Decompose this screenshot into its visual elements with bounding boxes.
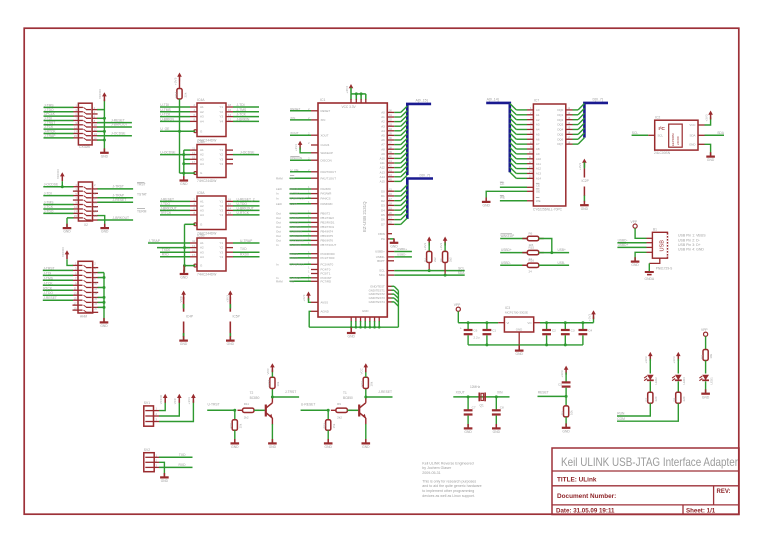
svg-text:GND: GND <box>483 204 491 208</box>
connector SV2 pin 1 <box>145 456 159 458</box>
svg-text:1: 1 <box>308 267 310 270</box>
wire LED1 to ground <box>705 381 707 393</box>
wire GND/TEST2 diagonal <box>394 294 398 298</box>
svg-text:to implement other programming: to implement other programming <box>422 489 474 493</box>
wire VPP to R1 <box>705 336 707 349</box>
wire regulator ground rail <box>468 344 583 346</box>
wire IC5A/IC5B GND vertical <box>184 224 186 271</box>
svg-text:R1: R1 <box>700 355 704 359</box>
svg-text:J-RESET: J-RESET <box>43 296 57 300</box>
IC1 VCC pin <box>355 99 357 103</box>
svg-text:D1: D1 <box>381 194 385 198</box>
supply VCC arrow R12 <box>364 363 369 367</box>
ground below IC4B <box>183 176 185 180</box>
wire RUDY to IC1 <box>290 188 312 190</box>
ground GNDA <box>645 271 654 273</box>
connector SV1 pin 3 <box>145 421 159 423</box>
svg-text:AHM: AHM <box>80 315 87 319</box>
IC2 pin SCL <box>648 134 655 136</box>
wire reset cap top <box>565 373 567 382</box>
svg-text:A3: A3 <box>200 250 204 254</box>
ground at IC1 PA pin <box>393 238 395 242</box>
svg-text:RESET: RESET <box>538 391 549 395</box>
svg-text:GND: GND <box>325 445 333 449</box>
svg-text:10k: 10k <box>709 353 713 358</box>
IC5A pin G bubble <box>194 223 197 226</box>
svg-text:PN61729-S: PN61729-S <box>656 266 672 270</box>
wire node to R3 <box>565 396 567 406</box>
wire D3 bus entry <box>394 204 401 206</box>
connector X1 pin contacts row 8 <box>73 137 83 139</box>
svg-text:PB6/INT6: PB6/INT6 <box>321 239 334 243</box>
wire +3V3 riser <box>593 317 595 323</box>
svg-text:A6: A6 <box>381 138 385 142</box>
svg-text:USB Pin 1: VBUS: USB Pin 1: VBUS <box>678 234 706 238</box>
junction IC4B A4 <box>182 162 185 165</box>
svg-text:Y4: Y4 <box>219 213 223 217</box>
svg-text:In: In <box>276 262 279 266</box>
svg-text:USBD-: USBD- <box>501 261 511 265</box>
svg-text:+3V3: +3V3 <box>560 370 564 377</box>
IC1 left pin PC5/T1 <box>311 273 318 275</box>
svg-text:U-RESET: U-RESET <box>290 234 303 238</box>
wire WAKEUP to R6 <box>500 238 527 240</box>
svg-text:SDA: SDA <box>717 131 725 135</box>
wire C7 stub <box>467 397 469 410</box>
IC1 right pin PA to small ground <box>387 238 390 240</box>
IC7 pin A11 <box>527 163 533 165</box>
bus A[0..14] <box>486 103 510 172</box>
IC2P GND pin <box>583 187 585 197</box>
wire C8 stub <box>495 397 497 410</box>
IC1 right pin FBIN <box>387 233 392 235</box>
svg-text:15: 15 <box>74 214 77 218</box>
connector X3 pin contacts row 1 <box>73 264 83 266</box>
wire A13 bus entry <box>394 171 401 173</box>
svg-text:A1: A1 <box>536 113 540 117</box>
IC5A pin A3 <box>190 209 197 211</box>
svg-text:A7: A7 <box>381 143 385 147</box>
svg-text:14: 14 <box>94 132 97 136</box>
svg-text:14: 14 <box>94 291 97 295</box>
junction RESET <box>565 395 568 398</box>
IC5B pin A2 <box>190 247 197 249</box>
svg-text:24LC00SN: 24LC00SN <box>654 151 671 155</box>
svg-text:USBD-: USBD- <box>618 238 628 242</box>
svg-text:WR: WR <box>290 176 296 180</box>
transistor TRESET body <box>358 405 360 417</box>
svg-text:GND: GND <box>161 479 169 483</box>
IC1 pin A2 <box>387 121 394 123</box>
svg-text:X2: X2 <box>84 223 88 227</box>
wire USBD- at IC1 <box>394 256 412 258</box>
IC5P GND pin <box>229 322 231 338</box>
IC1 left pin PB3/TXD1 <box>311 226 318 228</box>
svg-text:2k2: 2k2 <box>337 416 342 420</box>
wire A12 to IC7 <box>516 168 527 170</box>
IC1 pin D4 <box>387 209 394 211</box>
svg-text:12MHz: 12MHz <box>470 385 481 389</box>
connector X2 pin contacts row 7 <box>73 212 83 214</box>
svg-text:A13: A13 <box>536 172 542 176</box>
wire X3 right row 2 <box>98 272 104 274</box>
wire X1 VCCIO vertical <box>103 99 105 152</box>
svg-text:R6: R6 <box>529 232 533 236</box>
wire DQ5 from IC7 <box>573 133 579 135</box>
IC1 pin A10 <box>387 157 394 159</box>
svg-text:J-RESET: J-RESET <box>160 197 174 201</box>
wire USBD+ at IC1 <box>394 251 412 253</box>
svg-text:16: 16 <box>94 136 97 140</box>
svg-text:+3V3: +3V3 <box>423 243 427 250</box>
wire U-TRST <box>207 409 235 411</box>
connector X3 box <box>78 261 93 313</box>
wire A8 to IC7 <box>516 148 527 150</box>
wire RXD to IC5B <box>160 256 190 258</box>
wire J-BRKOUT from X1 <box>97 126 132 128</box>
svg-text:Y4: Y4 <box>219 255 223 259</box>
IC7 pin WE <box>527 200 533 202</box>
svg-text:USBD+: USBD+ <box>618 243 629 247</box>
svg-text:J-TDI: J-TDI <box>43 271 51 275</box>
wire J-RESET right of X2 <box>98 201 134 203</box>
svg-text:U-TRST: U-TRST <box>208 403 220 407</box>
wire collector to R15b <box>271 389 273 398</box>
svg-text:24C00: 24C00 <box>676 136 680 145</box>
wire C2 top stub <box>546 323 548 330</box>
svg-text:PB3/TXD1: PB3/TXD1 <box>321 225 335 229</box>
svg-text:C7: C7 <box>472 406 476 410</box>
svg-text:U-PB-RST: U-PB-RST <box>290 262 304 266</box>
wire A9 bus entry <box>394 153 401 155</box>
IC5A pin A2 <box>190 205 197 207</box>
svg-text:2: 2 <box>94 262 96 266</box>
IC1 bottom GND pin <box>355 317 357 322</box>
ground IC4P <box>183 336 185 340</box>
svg-text:TITLE: ULink: TITLE: ULink <box>557 477 597 484</box>
wire C1 top stub <box>486 323 488 330</box>
svg-text:TERM: TERM <box>137 209 147 213</box>
resistor R14 <box>177 89 182 100</box>
svg-text:R10: R10 <box>229 423 233 429</box>
svg-text:AGND: AGND <box>321 309 329 313</box>
IC3 pin VO <box>534 322 540 324</box>
svg-text:VCC: VCC <box>689 123 695 127</box>
svg-text:CE: CE <box>536 184 540 188</box>
supply +3V3 arrow at regulator <box>591 310 596 314</box>
wire DQ7 from IC7 <box>573 143 579 145</box>
svg-text:C8: C8 <box>500 406 504 410</box>
transistor TTRST body <box>265 405 267 417</box>
wire A7 bus entry <box>394 144 401 146</box>
wire J-TDO to IC5A <box>160 205 190 207</box>
svg-text:SDA: SDA <box>379 273 385 277</box>
connector X3 pin contacts row 4 <box>73 279 83 281</box>
svg-text:2k2: 2k2 <box>433 257 437 262</box>
node VPP above R1 <box>704 332 708 336</box>
svg-text:2.2u: 2.2u <box>473 335 479 339</box>
wire CE <box>500 186 527 188</box>
wire USBD- to B1 <box>617 242 646 244</box>
svg-text:IC2P: IC2P <box>582 179 590 183</box>
svg-text:Y2: Y2 <box>219 153 223 157</box>
svg-text:MCP1700-3302E: MCP1700-3302E <box>505 311 528 315</box>
connector X2 pin contacts row 5 <box>73 204 83 206</box>
wire XIN to IC1 <box>290 119 311 121</box>
wire R16 to USB- <box>539 264 569 266</box>
supply VCCIO arrow X2 <box>60 172 65 176</box>
svg-text:GND: GND <box>562 429 570 433</box>
ground IC2P <box>583 201 585 205</box>
IC1 left pin PA0/T0OUT <box>311 171 318 173</box>
wire U-TDO to IC1 <box>290 193 312 195</box>
wire U-TMS to IC1 <box>290 217 312 219</box>
supply VCCIO arrow SV1 <box>163 394 168 398</box>
svg-text:WE: WE <box>536 199 541 203</box>
wire D2 bus entry <box>394 200 401 202</box>
IC2 inner EEPROM box <box>669 124 683 147</box>
wire DISCON to IC1 <box>290 159 311 161</box>
IC2P GND wire <box>583 196 585 202</box>
junction X1 row8 <box>103 139 106 142</box>
svg-text:J-TCK: J-TCK <box>44 205 54 209</box>
wire U-RESET junction to pulldown <box>327 410 329 420</box>
wire X3 right row 3 <box>98 277 104 279</box>
wire U-TDO from IC5A <box>233 205 260 207</box>
IC1 right pin USBD+ <box>387 251 394 253</box>
svg-text:A9: A9 <box>536 152 540 156</box>
wire GND/TEST4 <box>392 301 395 303</box>
ground stem at regulator <box>518 345 520 350</box>
wire C5 to node <box>565 388 567 397</box>
ground X2 right <box>104 224 106 228</box>
svg-text:U-BRKIN: U-BRKIN <box>290 230 302 234</box>
wire R6 to USB+ node <box>539 239 552 253</box>
IC5A pin A1 <box>190 200 197 202</box>
svg-text:D7: D7 <box>381 222 385 226</box>
svg-text:12: 12 <box>94 286 97 290</box>
wire DQ2 from IC7 <box>573 119 579 121</box>
wire J-TRAP to IC5B <box>148 242 190 244</box>
wire SDA rail <box>394 274 464 276</box>
wire cap C6 branch <box>458 322 468 324</box>
IC5B pin Y4 <box>226 256 233 258</box>
wire U-BRKIN to IC4A <box>160 120 190 122</box>
wire DQ0 from IC7 <box>573 109 579 111</box>
svg-text:USB: USB <box>660 240 666 252</box>
ground at C7 <box>467 424 469 428</box>
junction X3 right row 7 <box>103 296 106 299</box>
IC1 pin A12 <box>387 167 394 169</box>
LED LED2 <box>647 375 654 380</box>
svg-text:2k2: 2k2 <box>449 257 453 262</box>
svg-text:D0: D0 <box>381 189 385 193</box>
svg-text:+3V3: +3V3 <box>439 243 443 250</box>
svg-text:Y4: Y4 <box>219 162 223 166</box>
junction C2 top <box>545 321 548 324</box>
IC1 pin A7 <box>387 144 394 146</box>
junction X3 right row 8 <box>103 301 106 304</box>
svg-text:USBD+: USBD+ <box>397 247 407 251</box>
svg-text:T1: T1 <box>343 391 347 395</box>
svg-text:by Jochem Glaser: by Jochem Glaser <box>422 466 452 470</box>
supply +3V3 arrow R5 <box>443 237 448 241</box>
svg-text:GND: GND <box>516 352 524 356</box>
wire J-OCDSE from X1 <box>97 135 132 137</box>
wire J-TMS to X1 pin 1 <box>44 106 74 108</box>
wire R14 down to buffer enables <box>179 99 181 173</box>
IC4B pin Y1 <box>226 149 233 151</box>
capacitor C3 <box>561 329 570 331</box>
wire A2 to IC7 <box>516 119 527 121</box>
svg-text:WE: WE <box>500 196 505 200</box>
svg-text:I²C: I²C <box>659 126 666 132</box>
svg-text:Y3: Y3 <box>219 209 223 213</box>
svg-text:A0: A0 <box>381 111 385 115</box>
wire J-OCDSE to X2 <box>43 186 73 188</box>
IC4B pin Y2 <box>226 154 233 156</box>
wire RD to IC1 <box>290 280 312 282</box>
IC5A pin A4 <box>190 214 197 216</box>
wire collector to R12 <box>365 389 367 398</box>
svg-text:GND: GND <box>362 445 370 449</box>
svg-text:J-OCDSE: J-OCDSE <box>111 131 126 135</box>
wire C4 top stub <box>582 323 584 330</box>
svg-text:CY62256NLL-70PC: CY62256NLL-70PC <box>533 207 563 211</box>
ground at C8 <box>495 424 497 428</box>
svg-text:Y2: Y2 <box>219 246 223 250</box>
IC4B pin Y4 <box>226 163 233 165</box>
wire TXD0 to IC5B <box>160 251 190 253</box>
IC4A pin A2 <box>190 111 197 113</box>
IC2 pin GND <box>698 143 705 145</box>
svg-text:10k: 10k <box>570 410 574 415</box>
svg-text:Document Number:: Document Number: <box>557 493 616 500</box>
connector X3 pin contacts row 8 <box>73 299 83 301</box>
svg-text:TXD0: TXD0 <box>162 248 171 252</box>
svg-text:In: In <box>276 196 279 200</box>
svg-text:13: 13 <box>74 130 77 134</box>
svg-text:Out: Out <box>276 230 281 234</box>
svg-text:Out: Out <box>276 216 281 220</box>
IC1 left pin PB4/INT4 <box>311 230 318 232</box>
IC7 pin A4 <box>527 128 533 130</box>
svg-text:U-OCDSE: U-OCDSE <box>160 150 176 154</box>
svg-text:A4: A4 <box>200 213 204 217</box>
svg-text:Y3: Y3 <box>219 157 223 161</box>
wire emitter of U-TRST <box>271 418 273 425</box>
LED LED1 <box>702 375 709 380</box>
svg-text:J-TRAP: J-TRAP <box>148 239 160 243</box>
IC7 pin A14 <box>527 177 533 179</box>
IC7 pin DQ1 <box>566 114 573 116</box>
wire GND/TEST2 <box>392 293 395 295</box>
svg-text:FBIN: FBIN <box>378 232 385 236</box>
supply +3V3 arrow reset <box>564 366 569 370</box>
svg-text:RXD: RXD <box>179 463 187 467</box>
svg-text:A9: A9 <box>381 152 385 156</box>
wire J-TMS from IC4A <box>233 111 259 113</box>
svg-text:GND: GND <box>180 276 188 280</box>
op-amp IC5A box <box>197 196 226 230</box>
svg-text:A3: A3 <box>200 157 204 161</box>
connector SV2 pin 3 <box>145 466 159 468</box>
wire U-TCK to IC1 <box>290 221 312 223</box>
wire U-TMS to IC4A <box>160 111 190 113</box>
wire IC2 VCC to +3V3 <box>705 117 711 125</box>
svg-text:GND: GND <box>493 430 501 434</box>
svg-text:B1: B1 <box>653 228 657 232</box>
svg-text:GND: GND <box>707 158 715 162</box>
wire J-TCK to X1 pin 11 <box>44 128 74 130</box>
IC5A pin Y3 <box>226 209 233 211</box>
svg-text:U-RTCK: U-RTCK <box>237 211 250 215</box>
wire SCL to IC2 <box>632 134 649 136</box>
svg-text:C5: C5 <box>558 382 562 386</box>
IC4B pin G bubble <box>194 172 197 175</box>
connector B1 shield pin <box>649 258 660 263</box>
wire X3 right pins to GND <box>103 273 105 322</box>
svg-text:U-TMS: U-TMS <box>160 108 171 112</box>
capacitor C7 <box>464 409 473 411</box>
svg-text:A14: A14 <box>380 175 386 179</box>
svg-text:+3V3: +3V3 <box>704 114 708 121</box>
wire X1 row8 to vertical <box>97 139 104 141</box>
svg-text:PA: PA <box>381 237 385 241</box>
svg-text:Date: 31.05.09 19:11: Date: 31.05.09 19:11 <box>556 508 615 515</box>
svg-text:A[0..14]: A[0..14] <box>487 97 499 101</box>
wire U-OCDSE to IC1 <box>290 239 312 241</box>
wire A6 bus entry <box>394 139 401 141</box>
IC5B pin G bubble <box>194 264 197 267</box>
svg-text:COM: COM <box>290 202 298 206</box>
svg-text:Out: Out <box>276 221 281 225</box>
svg-text:DQ2: DQ2 <box>557 118 563 122</box>
junction C2 bottom <box>545 343 548 346</box>
svg-text:J-TMS: J-TMS <box>237 108 248 112</box>
svg-text:U-BRKOUT: U-BRKOUT <box>237 206 254 210</box>
svg-text:A1: A1 <box>381 115 385 119</box>
wire C6 bottom stub <box>467 335 469 345</box>
svg-text:D[0..7]: D[0..7] <box>593 97 603 101</box>
svg-text:SV1: SV1 <box>144 401 150 405</box>
svg-text:DQ4: DQ4 <box>557 128 563 132</box>
svg-text:A10: A10 <box>536 157 542 161</box>
svg-text:D5: D5 <box>381 213 385 217</box>
connector X1 pin contacts row 2 <box>73 111 83 113</box>
svg-text:GND: GND <box>269 445 277 449</box>
svg-text:G: G <box>200 264 203 268</box>
resistor R8 <box>676 392 681 403</box>
svg-text:74HC244DW: 74HC244DW <box>197 179 217 183</box>
wire U-TDI to IC4A <box>160 106 190 108</box>
IC1 pin D2 <box>387 200 394 202</box>
svg-text:U-TDO: U-TDO <box>237 202 248 206</box>
wire D6 bus entry <box>394 219 401 221</box>
IC1 pin A9 <box>387 153 394 155</box>
svg-text:G: G <box>200 171 203 175</box>
wire COM to IC1 <box>290 203 312 205</box>
capacitor C2 <box>542 329 551 331</box>
IC7 pin A12 <box>527 168 533 170</box>
svg-text:J-OCDSE: J-OCDSE <box>240 150 255 154</box>
svg-text:A3: A3 <box>200 209 204 213</box>
svg-text:U-OCDSE: U-OCDSE <box>290 239 304 243</box>
svg-text:OE: OE <box>536 189 540 193</box>
supply VCC arrow R15b <box>270 363 275 367</box>
supply +3V3 arrow IC2 <box>708 111 713 115</box>
IC1 pin A11 <box>387 162 394 164</box>
